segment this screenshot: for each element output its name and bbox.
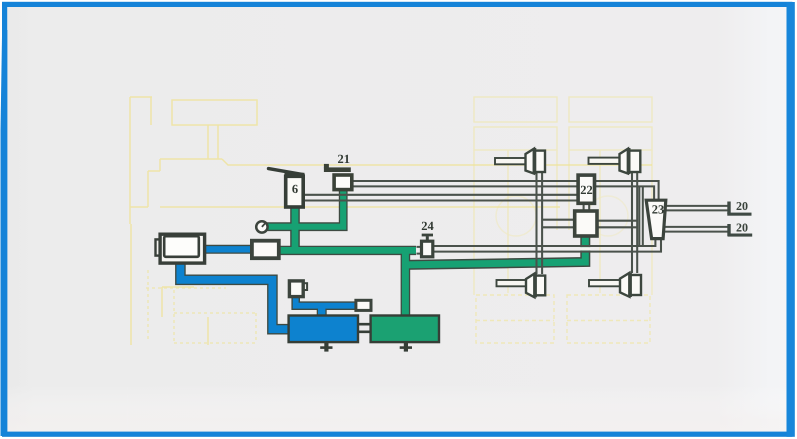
wire: relay left branch to front axle, lower border	[542, 226, 576, 228]
wire: trailer service line to coupling 20 upper, borders	[664, 206, 728, 211]
wire: green upper main line (outline)	[279, 246, 416, 255]
brake chamber rear-left (top right)	[589, 148, 641, 174]
compressor inner body	[164, 236, 199, 257]
outer blue frame right-edge thickening	[787, 2, 795, 437]
brake valve 6 body	[286, 176, 304, 207]
relay emergency valve 22	[578, 175, 594, 203]
svg-text:23: 23	[652, 203, 665, 217]
drain valve under wet tank	[320, 342, 332, 352]
wire: drop from run1 to run3 left of valve 23, left border	[638, 186, 640, 246]
governor / unloader box	[252, 241, 279, 259]
wire: rear axle chamber column, left border	[631, 173, 633, 274]
wire: blue branch into wet tank	[318, 306, 325, 316]
wire: run3 white channel crossing over green relay drop	[580, 247, 591, 250]
wire: relay right branch to rear axle, lower border	[597, 226, 637, 228]
outer blue frame left-edge thickening	[1, 30, 8, 436]
wire: green gauge cross line + drop below coupling 21 box	[267, 189, 343, 227]
compressor outer body	[160, 234, 205, 263]
wire: run from valve 24 to valve 23 bottom, lower border	[433, 239, 661, 252]
wire: run from brake valve 6 to relay 22, lower border	[304, 199, 578, 201]
wire: blue branch into wet tank (outline)	[317, 306, 327, 316]
wire: neck between 22 and relay, right border	[588, 203, 590, 212]
wire: drop from run1 to run3 left of valve 23, right border	[642, 186, 644, 246]
wire: front axle chamber column, left border	[535, 173, 537, 275]
svg-text:6: 6	[292, 182, 298, 196]
brake valve 6 top cap	[285, 173, 305, 178]
tank interconnect lines	[358, 324, 371, 332]
brake valve 6 pedal	[269, 169, 304, 175]
wire: green drop below brake valve 6	[292, 206, 299, 250]
wire: neck between 22 and relay, left border	[583, 203, 585, 212]
safety valve ear	[303, 283, 308, 290]
wire: blue safety-valve branch line (outline)	[296, 296, 362, 306]
svg-text:20: 20	[736, 199, 748, 213]
wire: relay left branch to front axle, upper border	[542, 219, 576, 221]
wire: blue safety-valve branch line	[296, 296, 362, 306]
safety valve box	[289, 281, 303, 297]
svg-text:20: 20	[736, 221, 748, 235]
coupling 21 plate tick	[324, 164, 329, 168]
brake chamber front-left (top)	[495, 148, 545, 174]
wire: rear axle chamber column, right border	[636, 173, 638, 274]
wire: blue compressor down-across-down to wet tank	[180, 262, 289, 329]
svg-text:22: 22	[580, 183, 593, 197]
svg-text:24: 24	[421, 219, 434, 233]
wire: blue compressor down-across-down to wet tank (outline)	[180, 262, 289, 329]
compressor left end cap	[156, 239, 163, 255]
wire: front axle chamber column, right border	[541, 173, 543, 275]
coupling head 20 upper	[727, 202, 751, 216]
svg-text:21: 21	[338, 152, 351, 166]
wire: green gauge cross line + drop below coupling 21 box (outline)	[267, 190, 343, 227]
pipe outlines dark pass	[180, 190, 585, 329]
coupling 21 box	[334, 175, 352, 190]
wire: stub between green main end and valve 24, borders	[417, 247, 423, 254]
brake chamber front-left (bottom)	[497, 273, 546, 297]
brake chamber rear-left (bottom right)	[589, 273, 641, 297]
pipe colours	[267, 189, 585, 316]
valve 24 handle	[426, 236, 429, 241]
wet tank (blue reservoir)	[289, 316, 358, 343]
pressure gauge	[256, 221, 267, 232]
wire: green drop below brake valve 6 (outline)	[290, 207, 300, 250]
wire: green drop to rear reservoir (outline)	[401, 250, 411, 316]
wire: green lower main line + relay drop (outline)	[405, 235, 585, 265]
wire: run from valve 24 to valve 23 bottom, upper border	[433, 239, 655, 246]
small end box on safety line	[356, 300, 371, 310]
wire: relay right branch to rear axle, upper border	[597, 220, 637, 222]
wire: run from 21 to trailer valve 23 top, lower border	[352, 186, 654, 200]
wire: run from brake valve 6 to relay 22, upper border	[304, 194, 578, 196]
wire: blue compressor to governor (outline)	[204, 245, 253, 254]
wire: green lower main line + relay drop	[405, 235, 585, 265]
wire: run from 21 to trailer valve 23 top, upper border	[352, 181, 659, 201]
valve 24 body	[422, 241, 433, 257]
wire: blue compressor to governor	[204, 246, 253, 252]
coupling 21 plate bar	[324, 167, 351, 172]
drain valve under rear tank	[400, 342, 412, 352]
trailer control valve 23 (trapezoid)	[646, 200, 666, 238]
rear tank (green reservoir)	[371, 316, 439, 343]
relay valve lower body	[575, 211, 597, 236]
ghost truck outline (pale yellow)	[130, 97, 652, 345]
wire: green drop to rear reservoir	[402, 250, 409, 316]
wire: green upper main line	[279, 247, 416, 254]
coupling head 20 lower	[727, 224, 752, 237]
wire: trailer supply line to coupling 20 lower, borders	[663, 227, 728, 232]
